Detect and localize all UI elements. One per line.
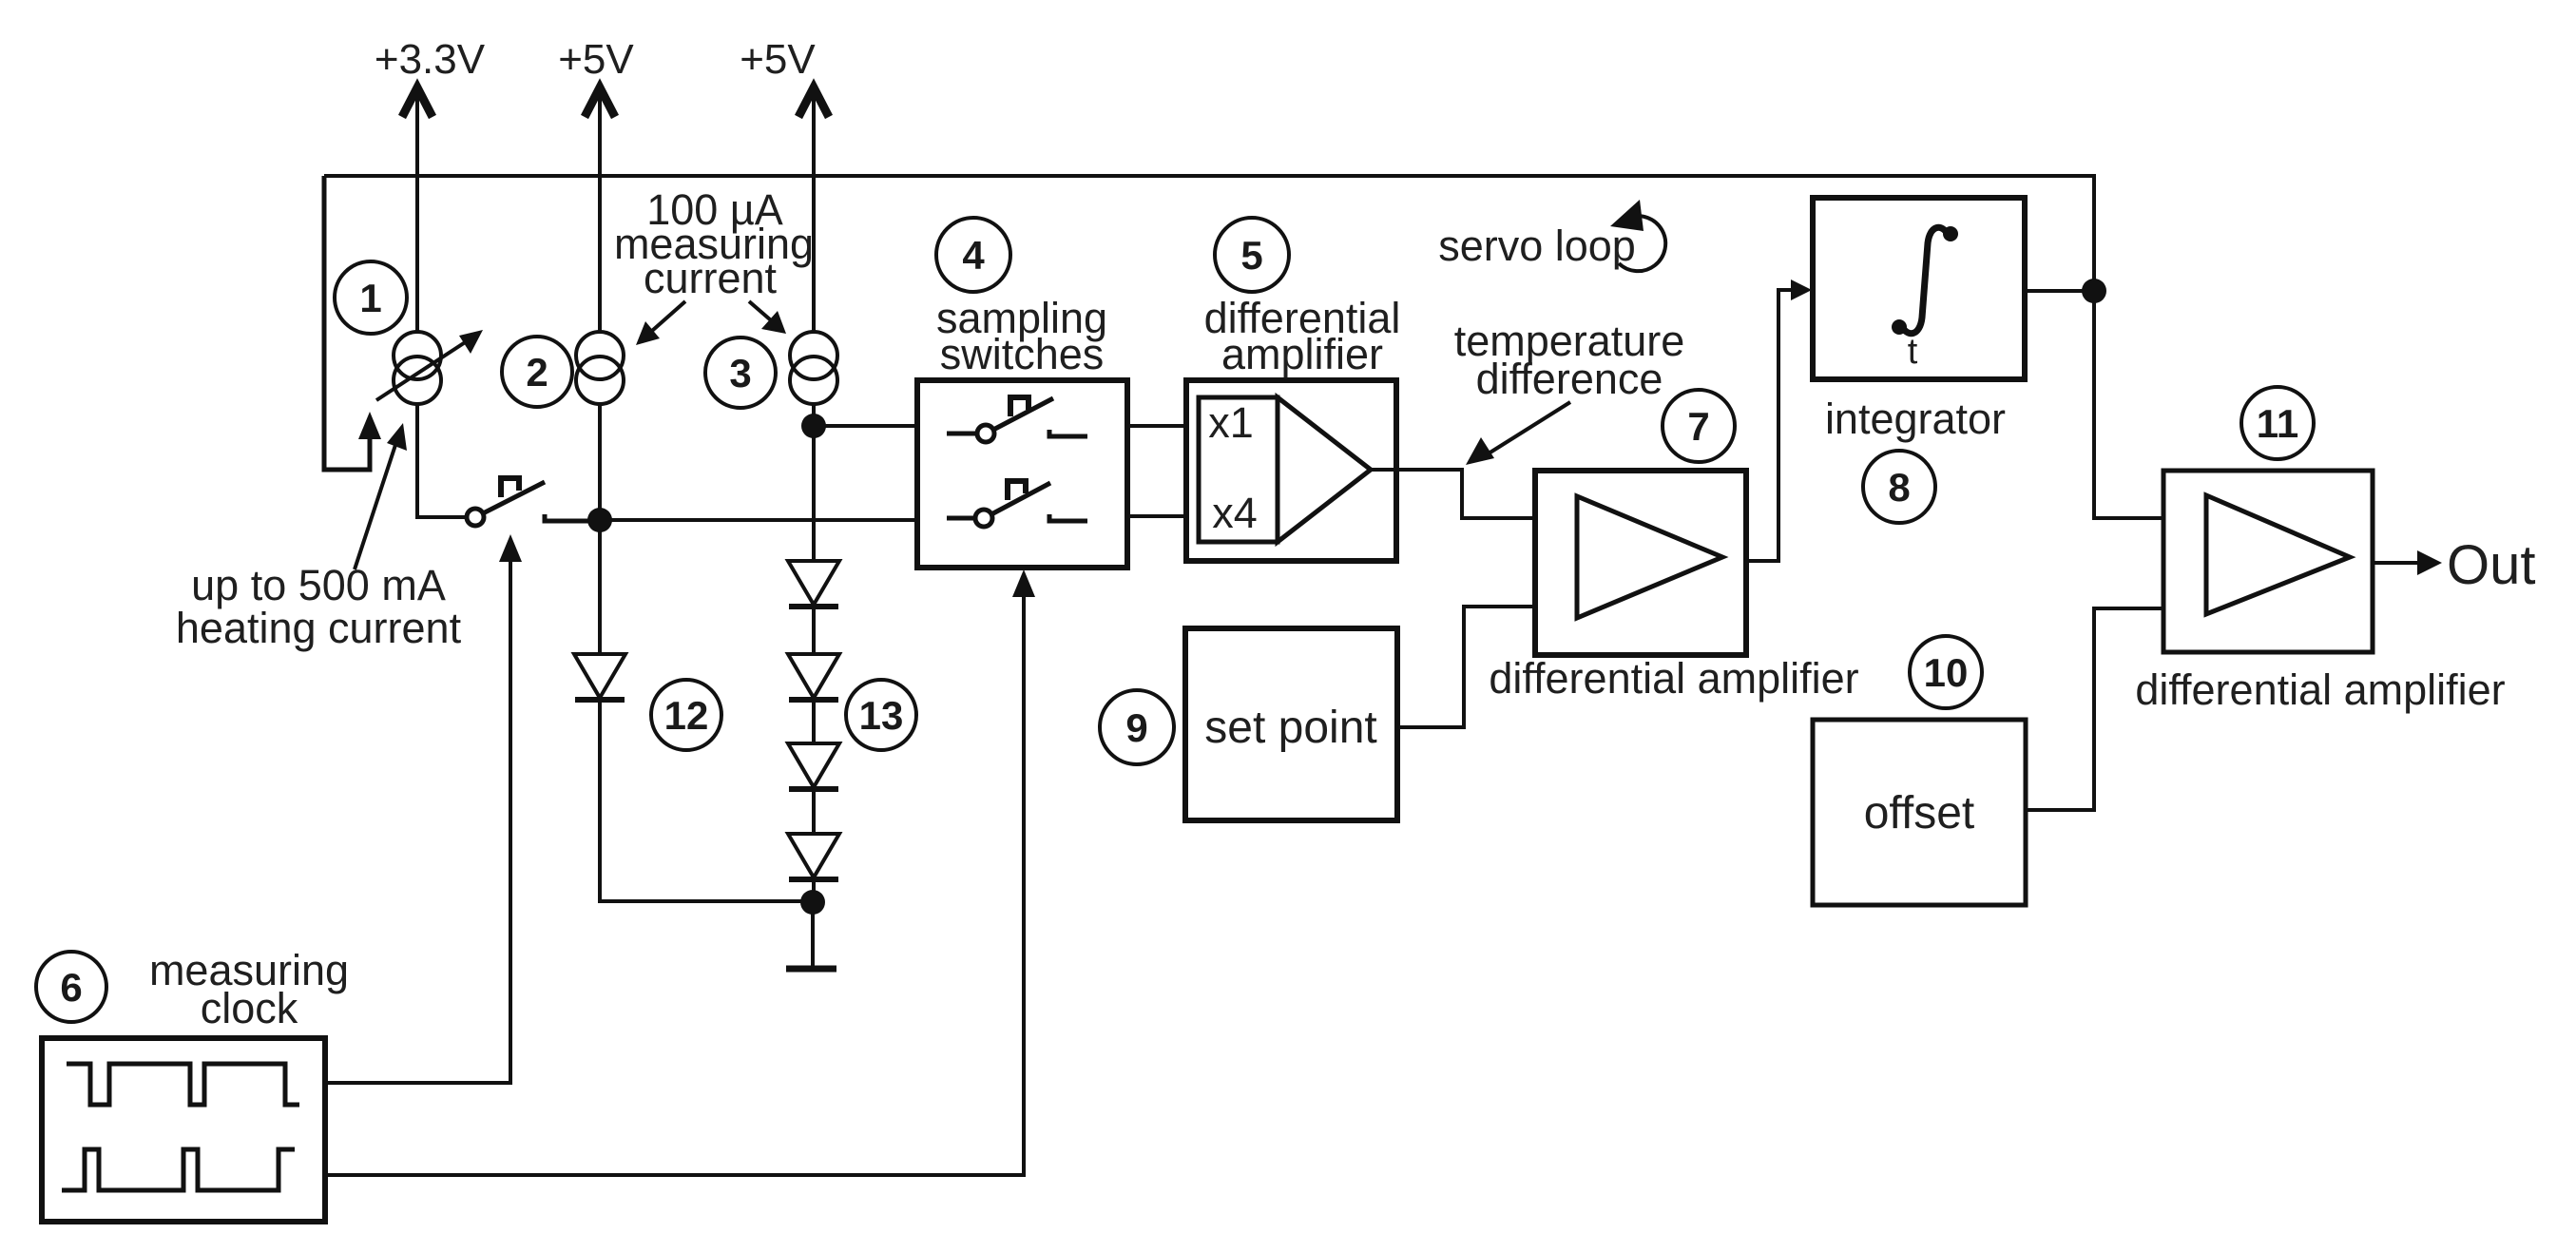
junction dot diode chain bottom [800, 890, 825, 915]
wire box7 output to integrator [1746, 290, 1798, 561]
integral sign [1901, 227, 1949, 333]
svg-text:Out: Out [2447, 534, 2536, 596]
svg-text:12: 12 [664, 693, 709, 738]
arrowhead into integrator [1791, 280, 1812, 300]
clock waveform upper [67, 1064, 299, 1105]
svg-text:3: 3 [729, 351, 751, 395]
switch arm [483, 482, 545, 513]
label circle 1 [335, 261, 407, 334]
wire box4 to box5 lower [1127, 514, 1186, 518]
junction dot line3 upper rail [801, 414, 826, 438]
svg-text:difference: difference [1476, 355, 1663, 403]
wire integrator output [2025, 289, 2094, 293]
svg-text:+5V: +5V [558, 36, 634, 83]
junction dot integrator output [2082, 279, 2106, 303]
svg-text:set point: set point [1204, 703, 1376, 753]
op-amp triangle in box 5 [1278, 397, 1371, 542]
label circle 10 [1910, 636, 1982, 708]
svg-text:4: 4 [962, 233, 985, 278]
annotation arrow temperature difference [1481, 402, 1570, 458]
gain select rect x1/x4 [1199, 397, 1278, 542]
svg-text:6: 6 [60, 965, 82, 1010]
svg-text:integrator: integrator [1825, 395, 2006, 443]
svg-text:7: 7 [1687, 404, 1709, 449]
svg-text:13: 13 [859, 693, 904, 738]
wire +5V(2) vertical upper [598, 90, 602, 333]
arrowhead +5V(3) [798, 87, 829, 117]
wire output Out [2373, 561, 2422, 565]
switch right contact [545, 514, 598, 521]
svg-text:+3.3V: +3.3V [375, 36, 486, 83]
svg-text:servo loop: servo loop [1438, 222, 1636, 270]
svg-text:5: 5 [1240, 233, 1262, 278]
wire +3.3V vertical upper [415, 90, 419, 333]
svg-text:clock: clock [201, 984, 298, 1032]
wire upper rail to sampling box [814, 424, 917, 428]
switch SW3 (lower sampling) [947, 481, 1087, 527]
clock waveform lower [62, 1149, 295, 1190]
arrowhead clock to switch [499, 534, 522, 562]
wire +5V(3) vertical upper [812, 90, 816, 333]
measuring clock box 6 [42, 1038, 325, 1222]
switch SW1 (heating) [467, 478, 598, 526]
ground bar [786, 966, 836, 973]
variable arrow through source 1 [376, 337, 472, 400]
svg-text:x1: x1 [1208, 398, 1254, 447]
servo loop circular arrow [1619, 216, 1665, 271]
label circle 8 [1863, 451, 1935, 523]
label circle 5 [1215, 218, 1289, 292]
integrator box 8 [1813, 198, 2025, 379]
current source 1 (variable, heating) [376, 330, 483, 404]
current source 3 [790, 332, 837, 404]
svg-text:8: 8 [1888, 465, 1910, 510]
diode D12 [574, 654, 625, 700]
label circle 9 [1100, 690, 1174, 764]
label circle 12 [651, 680, 721, 750]
wire box4 to box5 upper [1127, 424, 1186, 428]
wire +3.3V vertical lower [417, 404, 467, 517]
wire servo feedback top line [324, 176, 2094, 285]
label circle 6 [36, 952, 106, 1022]
switch actuator [501, 478, 519, 497]
svg-text:10: 10 [1924, 650, 1969, 695]
sampling switches box 4 [917, 380, 1127, 568]
arrowhead +3.3V [402, 87, 433, 117]
svg-text:up to 500 mA: up to 500 mA [191, 561, 446, 609]
wire to ground [811, 902, 815, 966]
svg-text:1: 1 [359, 276, 381, 320]
current source 2 [576, 332, 624, 404]
svg-text:2: 2 [526, 350, 548, 395]
diode chain D13 (4 diodes) [788, 561, 839, 902]
switch SW2 (upper sampling) [947, 397, 1087, 442]
annotation arrow to source 2 [644, 301, 685, 337]
svg-text:heating current: heating current [176, 604, 462, 652]
svg-text:x4: x4 [1212, 489, 1258, 537]
wire amp5 output to box7 upper input [1371, 470, 1535, 518]
wire clock lower output to sampling switches [325, 583, 1024, 1175]
label circle 4 [936, 218, 1010, 292]
wire offset to box11 lower input [2026, 608, 2163, 810]
svg-text:11: 11 [2257, 401, 2298, 446]
arrowhead Out [2417, 550, 2442, 575]
label circle 7 [1663, 390, 1735, 462]
svg-text:amplifier: amplifier [1221, 330, 1383, 378]
svg-text:t: t [1908, 332, 1918, 372]
differential amplifier box 11 [2163, 471, 2373, 652]
annotation arrow heating current [355, 442, 396, 569]
svg-text:current: current [644, 254, 778, 302]
svg-text:switches: switches [940, 330, 1105, 378]
label circle 13 [846, 680, 916, 750]
wire control-input L to current source 1 [324, 176, 370, 470]
op-amp triangle in box 11 [2206, 495, 2350, 614]
differential amplifier box 5 [1186, 380, 1396, 561]
node +5V rail 2 [585, 87, 615, 654]
differential amplifier box 7 [1535, 471, 1746, 655]
node +5V rail 3 [798, 87, 829, 561]
svg-text:9: 9 [1125, 705, 1147, 750]
junction dot lower rail / line2 [587, 508, 612, 532]
wire clock upper output to heating switch [325, 548, 510, 1083]
op-amp triangle in box 7 [1577, 496, 1722, 618]
arrowhead control arrow up [358, 412, 381, 439]
wire +5V(3) vertical lower [812, 404, 816, 561]
arrowhead +5V(2) [585, 87, 615, 117]
node +3.3V rail [402, 87, 467, 517]
label circle 3 [705, 337, 776, 408]
arrowhead clock to sampling box [1012, 569, 1035, 597]
svg-text:+5V: +5V [740, 36, 816, 83]
label circle 2 [502, 337, 572, 407]
wire junction down to box11 upper input [2094, 291, 2163, 518]
svg-text:offset: offset [1864, 788, 1975, 839]
annotation arrow to source 3 [749, 301, 778, 326]
set point box 9 [1185, 628, 1397, 820]
offset box 10 [1813, 720, 2026, 905]
svg-text:differential amplifier: differential amplifier [2135, 665, 2505, 714]
label circle 11 [2241, 387, 2314, 459]
svg-text:differential amplifier: differential amplifier [1489, 654, 1858, 703]
wire line2 below diode to junction [600, 700, 801, 901]
wire +5V(2) vertical lower [598, 404, 602, 654]
wire lower rail to sampling box [600, 518, 917, 522]
wire set point to box7 lower input [1397, 607, 1535, 727]
